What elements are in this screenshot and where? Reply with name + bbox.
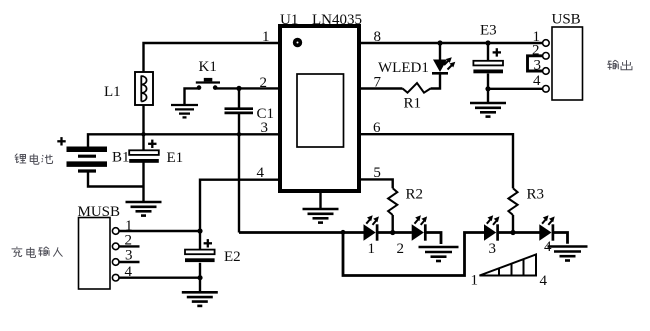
- svg-text:3: 3: [125, 248, 133, 264]
- svg-text:4: 4: [533, 73, 541, 89]
- svg-text:E2: E2: [224, 249, 241, 265]
- svg-text:MUSB: MUSB: [78, 204, 121, 220]
- svg-text:R1: R1: [404, 96, 422, 112]
- svg-text:1: 1: [262, 29, 270, 45]
- svg-text:4: 4: [544, 239, 552, 255]
- svg-text:U1: U1: [280, 12, 298, 28]
- svg-text:R2: R2: [406, 187, 424, 203]
- svg-text:3: 3: [534, 58, 542, 74]
- svg-text:WLED1: WLED1: [378, 60, 429, 76]
- svg-text:5: 5: [373, 165, 381, 181]
- svg-text:2: 2: [125, 232, 133, 248]
- svg-text:2: 2: [260, 75, 268, 91]
- svg-text:B1: B1: [112, 150, 130, 166]
- svg-text:4: 4: [125, 264, 133, 280]
- svg-text:2: 2: [397, 241, 405, 257]
- svg-text:4: 4: [257, 165, 265, 181]
- svg-text:8: 8: [374, 29, 382, 45]
- svg-text:1: 1: [471, 273, 479, 289]
- svg-text:R3: R3: [527, 187, 545, 203]
- svg-text:E1: E1: [167, 150, 184, 166]
- svg-text:3: 3: [489, 241, 497, 257]
- svg-text:3: 3: [261, 120, 269, 136]
- svg-text:K1: K1: [199, 59, 217, 75]
- svg-text:E3: E3: [480, 23, 497, 39]
- svg-text:1: 1: [368, 241, 376, 257]
- svg-text:C1: C1: [257, 106, 275, 122]
- svg-text:6: 6: [373, 120, 381, 136]
- svg-text:LN4035: LN4035: [312, 12, 362, 28]
- svg-text:4: 4: [540, 273, 548, 289]
- svg-text:2: 2: [532, 43, 540, 59]
- svg-text:L1: L1: [104, 84, 121, 100]
- svg-text:7: 7: [374, 75, 382, 91]
- svg-text:USB: USB: [552, 12, 581, 28]
